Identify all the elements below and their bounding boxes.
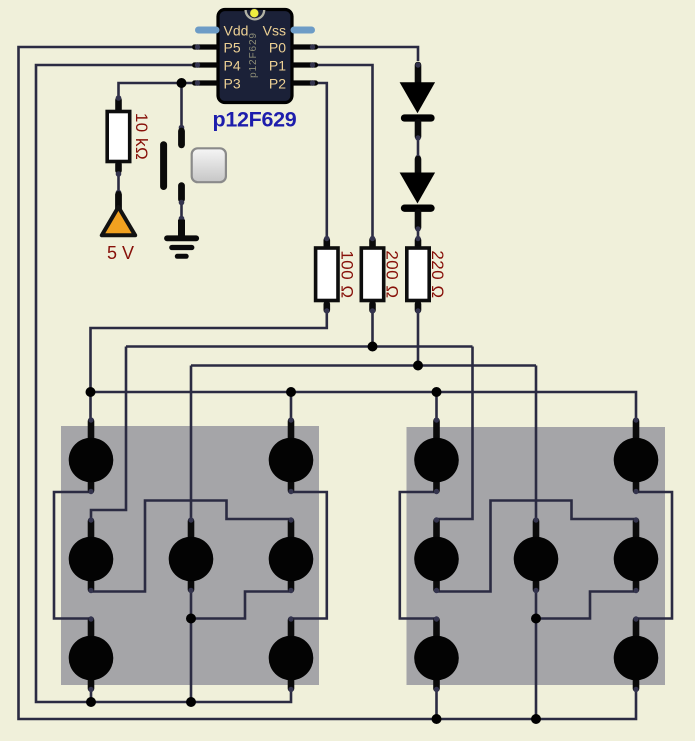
pin P4	[192, 62, 219, 67]
wire P0 net (chip P0 to diode D1)	[313, 47, 418, 61]
svg-text:p12F629: p12F629	[248, 32, 259, 78]
LED L2 left board top-right	[269, 417, 314, 494]
wire bus D (top LED bus)	[91, 392, 637, 421]
resistor R2 100 Ohm	[316, 236, 357, 314]
LED L9 right board top-right	[614, 417, 659, 494]
LED L3 left board mid-left	[69, 517, 114, 593]
LED L6 left board bottom-left	[69, 616, 114, 692]
svg-text:P4: P4	[224, 58, 241, 74]
node bus D / LED TR left	[286, 387, 296, 397]
wire push button to ground	[180, 202, 183, 236]
wire bus C	[191, 364, 536, 367]
wire bus B left drop to LED ML	[91, 347, 126, 523]
wire right board step lower	[536, 592, 636, 619]
wire R1 to 5V source	[117, 174, 120, 193]
node P3/button junction	[177, 78, 187, 88]
wire left board mid-center down to bus 1	[190, 589, 193, 703]
svg-text:Vss: Vss	[263, 23, 286, 39]
LED board right background	[407, 427, 666, 685]
LED board left background	[61, 426, 319, 685]
diode D1	[400, 62, 436, 140]
node R4/bus C junction	[413, 361, 423, 371]
node right board mid-center bottom	[531, 614, 541, 624]
node bus 1 / LED BL left	[86, 697, 96, 707]
wire left board right bypass	[291, 492, 327, 619]
node bus 2 / LED BL right	[432, 714, 442, 724]
wire R4 bottom to bus C	[417, 311, 420, 366]
LED L10 right board mid-left	[414, 517, 459, 593]
LED L7 left board bottom-right	[269, 616, 314, 692]
node bus 1 / mid-center left	[186, 697, 196, 707]
resistor R3 200 Ohm	[361, 236, 401, 314]
wire P3 branch to push button	[180, 83, 183, 128]
svg-text:p12F629: p12F629	[213, 108, 297, 132]
pin P3	[192, 80, 219, 85]
ground	[167, 216, 196, 257]
wire R2 bottom to bus A to left board top	[91, 311, 327, 422]
wire P1 net (chip P1 to R3 200)	[313, 65, 373, 239]
wire right board mid-center down to bus 2	[535, 589, 538, 720]
push button SW1	[164, 125, 226, 206]
pin P1	[291, 62, 318, 67]
LED L5 left board mid-right	[269, 517, 314, 593]
LED L4 left board mid-center	[169, 517, 214, 593]
LED L13 right board bottom-left	[414, 616, 459, 692]
wire left board left bypass	[54, 492, 91, 619]
op-amp chip U1 p12F629	[192, 9, 318, 132]
svg-text:Vdd: Vdd	[224, 23, 249, 39]
wire left board step lower	[191, 592, 291, 619]
node left board mid-center bottom	[186, 614, 196, 624]
LED L14 right board bottom-right	[614, 616, 659, 692]
node R3/bus B junction	[368, 342, 378, 352]
svg-text:P1: P1	[269, 58, 286, 74]
wire right board BL to bus 2	[435, 689, 438, 720]
LED L11 right board mid-center	[514, 517, 559, 593]
wire P3 net (chip P3 to pull-up resistor)	[119, 83, 193, 99]
wire D2 to R4 220	[417, 229, 420, 239]
wire D1 to D2	[417, 138, 420, 158]
wire right board left bypass	[400, 492, 437, 619]
wire bus B	[126, 345, 473, 348]
LED L1 left board top-left	[69, 417, 114, 494]
svg-text:100 Ω: 100 Ω	[338, 250, 357, 298]
resistor R4 220 Ohm	[407, 236, 447, 314]
pin Vdd stub	[199, 27, 217, 34]
svg-text:5 V: 5 V	[107, 243, 134, 263]
wire left board BL to bus 1	[90, 689, 93, 703]
wire bus D branch to left board LED TR	[290, 392, 293, 421]
wire P2 net (chip P2 to R2 100)	[313, 83, 327, 239]
wire bus B right drop to LED ML right board	[437, 347, 473, 523]
svg-text:P2: P2	[269, 76, 286, 92]
diode D2	[400, 155, 436, 232]
svg-text:P5: P5	[224, 40, 241, 56]
resistor R1 10 kOhm	[107, 95, 151, 177]
svg-text:P0: P0	[269, 40, 286, 56]
svg-text:220 Ω: 220 Ω	[428, 250, 447, 298]
LED L8 right board top-left	[414, 417, 459, 494]
wire bus C left drop to LED MC	[190, 366, 193, 523]
wire R3 bottom to bus B	[371, 311, 374, 347]
pin P5	[192, 44, 219, 49]
node bus D / LED TL left	[86, 387, 96, 397]
pin Vss stub	[294, 27, 312, 34]
svg-text:P3: P3	[224, 76, 241, 92]
pin P0	[291, 44, 318, 49]
svg-text:200 Ω: 200 Ω	[383, 250, 402, 298]
wire P4 net (chip P4 to bottom bus 1)	[36, 65, 291, 702]
pin P2	[291, 80, 318, 85]
wire bus C right drop to LED MC right board	[535, 366, 538, 523]
wire right board step upper	[437, 501, 637, 592]
LED L12 right board mid-right	[614, 517, 659, 593]
wire left board step upper	[91, 501, 291, 592]
wire bus D branch to right board LED TL	[435, 392, 438, 421]
node bus D / LED TL right	[432, 387, 442, 397]
wire right board right bypass	[636, 492, 672, 619]
node bus 2 / mid-center right	[531, 714, 541, 724]
voltage source V1 5V	[102, 190, 135, 263]
svg-text:10 kΩ: 10 kΩ	[132, 113, 151, 160]
